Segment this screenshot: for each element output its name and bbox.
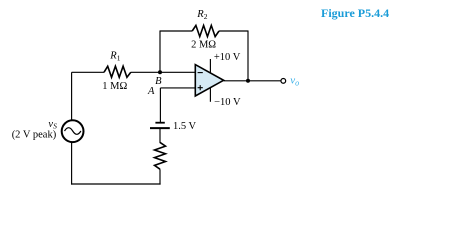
svg-text:R1: R1 [109, 50, 120, 62]
terminal vo open circle [281, 79, 286, 84]
svg-text:1 MΩ: 1 MΩ [102, 81, 127, 92]
voltage source sine symbol [65, 128, 81, 135]
op-amp noninverting input plus sign [198, 85, 203, 90]
svg-text:vo: vo [290, 75, 299, 88]
op-amp inverting input minus sign [198, 72, 203, 74]
wire: left rail below source [71, 142, 73, 185]
wire: top feedback right vertical (down to output node) [247, 31, 249, 81]
wire: bottom return [71, 183, 161, 185]
wire: input horizontal from source corner to R1 [72, 71, 104, 73]
svg-text:2 MΩ: 2 MΩ [191, 40, 216, 51]
svg-text:A: A [147, 86, 155, 97]
svg-text:(2 V peak): (2 V peak) [12, 130, 57, 141]
resistor R3 (unlabeled vertical) [155, 142, 166, 169]
wire: resistor down to bottom return [159, 169, 161, 184]
wire: top feedback left vertical (node B up to R2) [159, 31, 161, 72]
svg-text:−10 V: −10 V [214, 97, 241, 108]
op-amp U1 triangle [195, 65, 223, 96]
svg-text:Figure P5.4.4: Figure P5.4.4 [321, 6, 389, 20]
battery 1.5 V top short plate [155, 122, 164, 124]
svg-text:B: B [155, 76, 162, 87]
wire: R2 branch left horizontal [160, 30, 193, 32]
battery 1.5 V bottom long plate [150, 127, 170, 129]
svg-text:1.5 V: 1.5 V [173, 121, 197, 132]
output node junction dot [246, 79, 250, 83]
op-amp power rail line (vertical, hidden inside triangle) [209, 59, 211, 102]
resistor R2 [192, 25, 219, 36]
wire: op-amp noninverting input horizontal from node A [160, 87, 195, 89]
wire: battery down to resistor [159, 128, 161, 143]
wire: left rail from input corner down to source [71, 72, 73, 120]
svg-text:R2: R2 [196, 9, 207, 21]
voltage source vS circle [62, 120, 84, 142]
node B junction dot [158, 70, 162, 74]
wire: R1 to op-amp inverting input [131, 71, 196, 73]
wire: node A vertical down to battery [159, 88, 161, 122]
wire: R2 branch right horizontal [219, 30, 249, 32]
svg-text:+10 V: +10 V [214, 52, 241, 63]
resistor R1 [104, 66, 131, 77]
wire: op-amp output to terminal [224, 80, 282, 82]
